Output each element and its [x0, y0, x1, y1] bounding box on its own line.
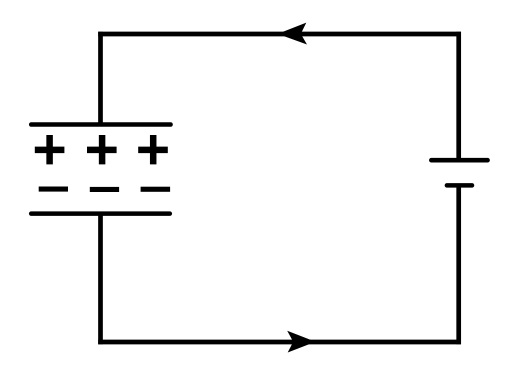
battery B1 positive long plate [431, 158, 487, 163]
minus charge 1 [39, 187, 68, 192]
minus charge 2 [90, 187, 119, 192]
wire right lower segment [456, 185, 461, 344]
wire left lower segment [98, 214, 103, 345]
plus charge 1 [35, 135, 65, 164]
minus charge 3 [141, 187, 171, 192]
wire bottom [98, 340, 461, 345]
current arrow bottom (pointing right) [287, 331, 315, 353]
plus charge 3 [138, 135, 168, 164]
wire right upper segment [456, 32, 461, 161]
capacitor C1 bottom plate [31, 211, 170, 216]
wire left upper segment [98, 32, 103, 125]
battery B1 negative short plate [447, 183, 472, 188]
current arrow top (pointing left) [278, 23, 307, 45]
capacitor C1 top plate [31, 122, 170, 127]
plus charge 2 [87, 135, 117, 164]
wire top [98, 32, 461, 37]
